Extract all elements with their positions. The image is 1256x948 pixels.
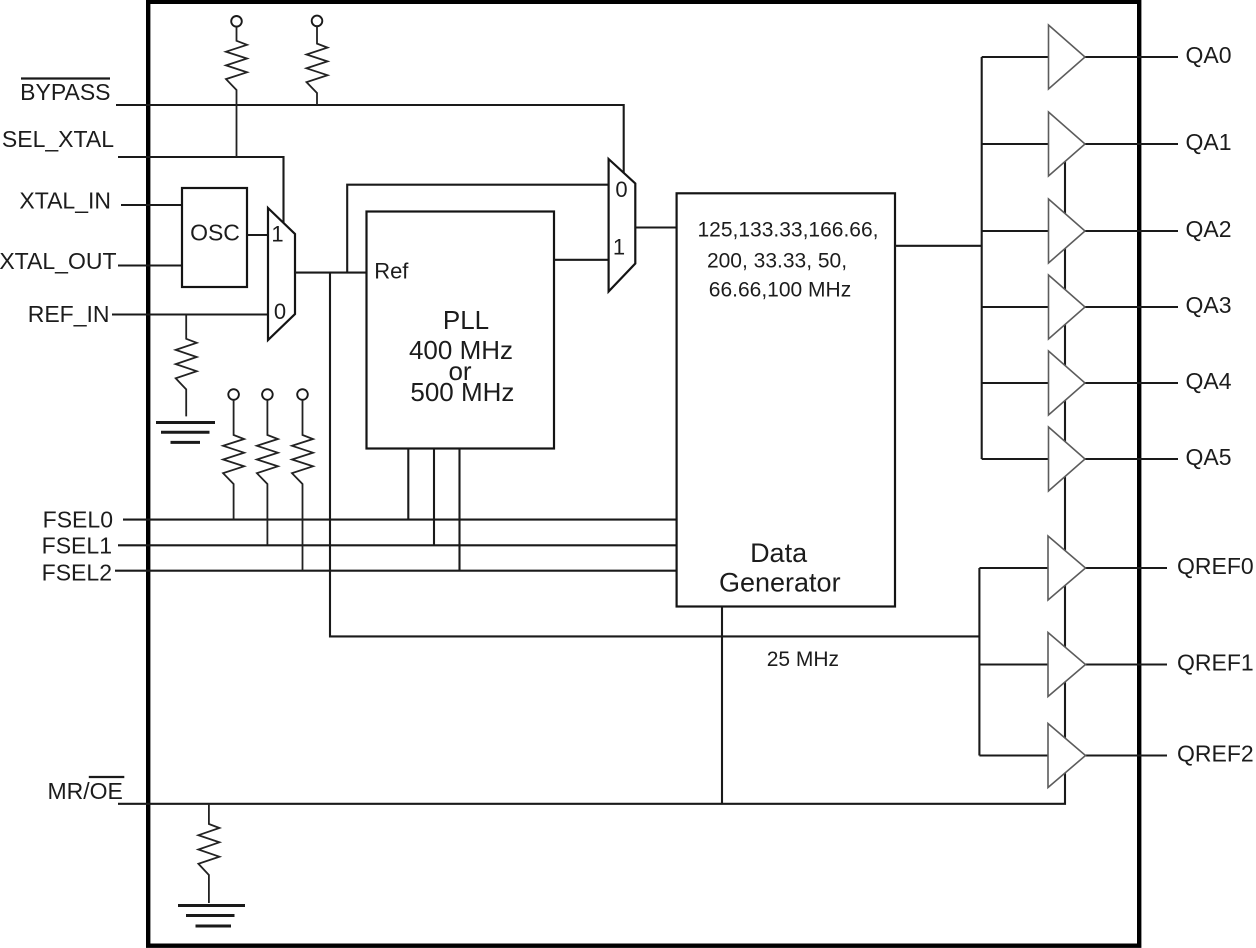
svg-text:Generator: Generator: [719, 568, 841, 598]
wire QREF2 buffer input stub: [979, 754, 1048, 756]
svg-text:QA5: QA5: [1186, 444, 1232, 470]
svg-text:1: 1: [613, 235, 625, 260]
svg-text:XTAL_IN: XTAL_IN: [19, 188, 111, 214]
svg-text:QA4: QA4: [1186, 368, 1232, 394]
wire QREF0 buffer input stub: [979, 567, 1048, 569]
wire OSC output to mux U2 input 1: [247, 234, 268, 236]
QREF input bus: [978, 568, 980, 756]
wire FSEL1 to Data Generator: [118, 544, 677, 546]
buffer QREF2: [1048, 724, 1086, 788]
wire QA0 buffer input stub: [982, 56, 1049, 58]
svg-text:XTAL_OUT: XTAL_OUT: [0, 248, 117, 274]
resistor R4 (FSEL0 pull-up): [223, 400, 244, 520]
svg-text:QA3: QA3: [1186, 292, 1232, 318]
buffer QREF0: [1048, 536, 1086, 600]
svg-text:QREF0: QREF0: [1177, 553, 1254, 579]
wire QA1 output pin: [1084, 143, 1178, 145]
svg-text:PLL: PLL: [443, 305, 489, 335]
svg-text:OSC: OSC: [190, 220, 240, 246]
wire mux U3 output to Data Generator: [635, 226, 676, 228]
svg-text:QREF2: QREF2: [1177, 741, 1254, 767]
resistor R7 (MR/OE pull-down): [198, 804, 219, 903]
buffer QA2: [1049, 199, 1086, 263]
wire QA5 output pin: [1084, 458, 1178, 460]
ground symbol for R3: [156, 423, 215, 443]
QA input bus: [981, 57, 983, 459]
wire QA1 buffer input stub: [982, 143, 1049, 145]
wire QA0 output pin: [1084, 56, 1178, 58]
wire 25 MHz feedback to QREF buffers: [330, 273, 979, 637]
wire FSEL2 to Data Generator: [115, 570, 677, 572]
wire BYPASS net to mux U3 select: [116, 105, 624, 174]
svg-text:FSEL2: FSEL2: [42, 560, 112, 586]
svg-text:Ref: Ref: [374, 259, 409, 284]
svg-text:FSEL0: FSEL0: [43, 507, 113, 533]
svg-text:MR/OE: MR/OE: [48, 778, 123, 804]
wire QREF1 buffer input stub: [979, 663, 1048, 665]
wire QA4 buffer input stub: [982, 382, 1049, 384]
oscillator block OSC: [182, 188, 247, 287]
wire QREF2 output pin: [1084, 754, 1167, 756]
pullup pin circle R6: [297, 389, 308, 400]
pullup pin circle R2: [312, 16, 323, 27]
svg-text:REF_IN: REF_IN: [28, 301, 110, 327]
PLL block: [367, 212, 555, 449]
resistor R5 (FSEL1 pull-up): [257, 400, 278, 546]
IC boundary box: [148, 2, 1139, 946]
wire QA4 output pin: [1084, 382, 1178, 384]
wire mux U2 output to PLL Ref and bypass branch: [295, 272, 367, 274]
svg-text:Data: Data: [750, 538, 808, 568]
svg-text:66.66,100 MHz: 66.66,100 MHz: [709, 279, 851, 302]
svg-text:500 MHz: 500 MHz: [410, 377, 514, 407]
buffer QA1: [1049, 112, 1086, 176]
label BYPASS (active low): [20, 79, 110, 106]
pullup pin circle R4: [228, 389, 239, 400]
buffer QREF1: [1048, 633, 1086, 697]
wire Data Generator output to QA bus: [895, 245, 982, 247]
pullup pin circle R5: [262, 389, 273, 400]
wire bypass branch up to mux U3 input 0: [347, 185, 608, 273]
pullup pin circle R1: [231, 16, 242, 27]
resistor R6 (FSEL2 pull-up): [292, 400, 313, 571]
svg-text:QREF1: QREF1: [1177, 650, 1254, 676]
wire MR/OE net across bottom and up to output buffers: [118, 150, 1065, 804]
wire QA2 output pin: [1084, 230, 1178, 232]
buffer QA4: [1049, 351, 1086, 415]
wire XTAL_OUT to OSC: [118, 264, 188, 266]
wire XTAL_IN to OSC: [121, 204, 188, 206]
wire REF_IN to mux U2 input 0: [112, 313, 268, 315]
wire FSEL0 to Data Generator: [123, 519, 677, 521]
svg-text:QA2: QA2: [1186, 216, 1232, 242]
svg-text:QA0: QA0: [1186, 42, 1232, 68]
Data Generator MR pin down to MR/OE net: [721, 607, 723, 804]
svg-text:FSEL1: FSEL1: [42, 533, 112, 559]
buffer QA3: [1049, 275, 1086, 339]
mux U3 (PLL bypass select): [609, 159, 636, 292]
resistor R1 (SEL_XTAL pull-up): [226, 27, 247, 157]
svg-text:125,133.33,166.66,: 125,133.33,166.66,: [697, 219, 878, 242]
label MR/OE (OE active low): [48, 777, 125, 804]
wire SEL_XTAL net to mux U2 select: [118, 157, 284, 224]
svg-text:BYPASS: BYPASS: [20, 79, 110, 105]
buffer QA5: [1049, 427, 1086, 491]
wire QREF0 output pin: [1084, 567, 1167, 569]
Data Generator block: [677, 193, 895, 606]
svg-text:0: 0: [615, 177, 627, 202]
resistor R3 (REF_IN pull-down): [176, 315, 197, 417]
svg-text:25 MHz: 25 MHz: [767, 648, 839, 671]
wire QA2 buffer input stub: [982, 230, 1049, 232]
PLL FSEL pins: [408, 449, 459, 571]
resistor R2 (BYPASS pull-up): [307, 26, 328, 105]
svg-text:1: 1: [271, 222, 283, 247]
wire QA3 buffer input stub: [982, 306, 1049, 308]
wire QA5 buffer input stub: [982, 458, 1049, 460]
svg-text:200, 33.33, 50,: 200, 33.33, 50,: [707, 250, 847, 273]
svg-text:SEL_XTAL: SEL_XTAL: [2, 126, 114, 152]
wire QREF1 output pin: [1084, 663, 1167, 665]
ground symbol for R7: [178, 906, 245, 927]
wire QA3 output pin: [1084, 306, 1178, 308]
svg-text:QA1: QA1: [1186, 129, 1232, 155]
wire PLL output to mux U3 input 1: [554, 259, 609, 261]
mux U2 (reference select): [268, 208, 295, 340]
svg-text:0: 0: [274, 299, 286, 324]
buffer QA0: [1049, 25, 1086, 89]
